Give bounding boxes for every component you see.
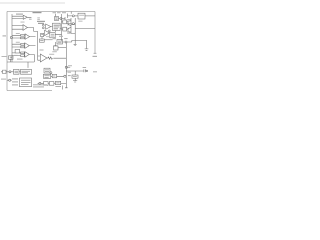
block bb2: [49, 82, 54, 86]
label modulator rows: [51, 34, 55, 36]
label vreg: [54, 44, 58, 47]
block mic mux: [15, 50, 20, 54]
op-amp A1: [23, 15, 27, 19]
label A4: [16, 41, 20, 44]
label list row1: [12, 78, 18, 79]
wire xtal2: [7, 79, 12, 81]
node C5 ring: [86, 70, 88, 72]
op-amp U4: [40, 54, 47, 62]
label under bb3: [55, 86, 61, 87]
label top pins: [53, 12, 57, 13]
label list row2: [12, 81, 18, 82]
label A5: [14, 55, 18, 56]
block bb1: [44, 82, 49, 86]
node pin above filter: [50, 72, 52, 74]
wire LDO to pin: [74, 15, 78, 17]
wire collect bus: [34, 31, 41, 60]
wire Q1: [62, 18, 72, 26]
wire sense: [72, 40, 87, 49]
node AGND pin: [64, 75, 66, 77]
resistor R3a: [21, 35, 25, 37]
block mux2: [39, 39, 44, 42]
capacitor micbias: [9, 56, 14, 60]
node pin XTAL2: [9, 79, 11, 81]
resistor R4b: [21, 46, 25, 48]
wire U4 out: [47, 57, 66, 59]
wire A5: [12, 53, 34, 62]
label filter B: [53, 75, 55, 77]
label list row3: [12, 84, 18, 85]
wire right rail: [94, 12, 96, 54]
wire bb chain: [48, 82, 66, 84]
block ILIM: [57, 40, 63, 45]
node pin IN circle: [10, 36, 12, 38]
label ILIM rows: [58, 41, 62, 43]
frame top: [7, 11, 95, 13]
label above zigzag line2: [49, 53, 54, 56]
wire switch node: [71, 18, 75, 44]
resistor R5b: [21, 55, 25, 57]
wire block down: [55, 31, 57, 33]
label above long wire: [17, 59, 23, 60]
block LDO: [78, 13, 85, 19]
label mux2: [40, 40, 43, 42]
wire long bottom: [7, 61, 34, 63]
wire filter out: [51, 75, 64, 77]
label LDO row: [79, 14, 84, 16]
block vreg: [54, 46, 59, 50]
wire right rail end: [94, 52, 97, 54]
label BOOT left line1: [67, 18, 70, 21]
label bb3: [56, 82, 59, 84]
wire main vertical: [65, 43, 68, 88]
label control logic line2: [38, 23, 44, 24]
wire vreg to vertical: [58, 47, 66, 49]
label BOOT right: [78, 20, 82, 23]
wire vreg: [55, 42, 57, 46]
label above U4: [40, 50, 44, 51]
label near y71 wire: [68, 71, 72, 74]
label A3: [16, 32, 20, 35]
label above zigzag line1: [52, 50, 57, 53]
label XTAL2 outside: [1, 79, 6, 80]
node BOOT pin: [72, 23, 74, 25]
node junction circle: [48, 30, 50, 32]
node pin left bb: [39, 82, 41, 84]
block filter B: [52, 74, 56, 78]
wire bias to mux2: [41, 37, 43, 39]
label pll rows: [22, 71, 31, 73]
wire right rail bottom: [66, 70, 84, 72]
label CS: [64, 38, 67, 39]
node LDO in pin: [72, 15, 74, 17]
wire top stub: [54, 14, 56, 17]
wire pin to filter: [50, 73, 52, 76]
resistor zigzag: [48, 57, 53, 59]
label OTP line1: [29, 16, 32, 19]
wire A4: [12, 44, 36, 47]
block bias small: [41, 33, 44, 36]
node CS pin: [65, 41, 67, 43]
wire boot rail: [75, 28, 95, 30]
crystal external: [1, 70, 9, 73]
op-amp A4: [25, 43, 30, 49]
label mid line2: [37, 18, 40, 21]
label top right corner: [93, 71, 97, 72]
wire pll clock up: [27, 62, 29, 68]
block dac: [44, 68, 50, 73]
wire VREF stub: [67, 66, 70, 68]
wire Q2: [62, 26, 72, 33]
wire tick bottom right: [62, 86, 64, 90]
capacitor C5: [84, 69, 86, 72]
label above A1: [16, 14, 23, 15]
label control logic line1: [37, 21, 45, 22]
label register rows: [21, 80, 31, 84]
frame bottom: [7, 90, 52, 92]
block modulator: [50, 33, 55, 38]
wire LDO in: [68, 12, 73, 19]
wire osc to pll: [19, 71, 21, 73]
resistor R5a: [21, 52, 25, 54]
block pll: [21, 69, 32, 74]
wire BOOT pin: [67, 23, 75, 25]
wire mux2 out: [44, 39, 52, 41]
op-amp U2: [46, 24, 51, 29]
ground under x75: [74, 44, 77, 45]
label above ILIM: [53, 38, 56, 39]
wire micbias: [10, 59, 12, 62]
label MICBIAS: [2, 55, 7, 58]
block snubber: [72, 75, 78, 78]
label under U3: [46, 35, 49, 38]
wire A3: [12, 35, 36, 38]
node circles U2: [42, 24, 44, 26]
label VCC: [59, 36, 63, 37]
block register map: [20, 78, 32, 87]
label PH line1: [67, 30, 70, 33]
block control logic: [53, 23, 61, 30]
block bb3: [55, 81, 60, 84]
label control block rows: [54, 25, 59, 29]
label gate mid: [59, 24, 62, 27]
wire gate bus: [61, 14, 63, 42]
label C5: [83, 67, 87, 68]
wire xtal1: [11, 71, 14, 73]
wire A1: [12, 16, 31, 18]
wire bb left: [38, 82, 44, 84]
op-amp A3: [25, 34, 30, 39]
wire input bus: [11, 14, 13, 62]
label snubber row: [73, 76, 77, 78]
wire LDO out: [85, 15, 95, 17]
label VREF: [68, 64, 72, 67]
page header rule: [0, 2, 65, 4]
resistor R3b: [21, 37, 25, 39]
label PGND right: [93, 56, 98, 57]
transistor Q1: [68, 20, 71, 26]
micbias plates: [10, 57, 11, 59]
label above A2: [21, 21, 25, 24]
frame left: [6, 12, 8, 91]
capacitor C4: [85, 49, 89, 50]
block osc: [14, 69, 20, 74]
label osc: [15, 71, 19, 73]
label mid line1: [37, 16, 40, 19]
op-amp A2: [23, 25, 27, 31]
block driver lo: [63, 27, 67, 31]
wire U2 to block: [51, 25, 62, 28]
label AGND: [68, 75, 71, 76]
resistor R4a: [21, 43, 25, 45]
op-amp U3: [45, 30, 50, 35]
wire mod: [49, 33, 61, 35]
label PH line2: [67, 32, 70, 35]
node VREF pin: [65, 66, 67, 68]
label dac rows: [45, 70, 49, 72]
label figure title: [33, 12, 42, 13]
label bottom note line1: [33, 84, 47, 85]
node ref out: [60, 18, 62, 20]
label bias small: [41, 34, 43, 36]
wire A2: [12, 25, 34, 31]
label OTP line2: [29, 18, 32, 21]
block filter A: [43, 74, 50, 78]
transistor Q2: [68, 27, 71, 33]
op-amp A5: [25, 52, 30, 58]
label bottom note line2: [33, 86, 44, 87]
block ref top: [55, 17, 59, 21]
node pin XTAL1: [9, 71, 11, 73]
label ref rows: [55, 18, 57, 19]
label IN outside: [3, 35, 7, 36]
wire snubber: [73, 71, 77, 82]
block driver hi: [63, 20, 67, 24]
label filter A: [44, 76, 49, 78]
wire CS: [63, 40, 72, 42]
label BOOT left line2: [67, 20, 70, 23]
wire ref: [59, 17, 66, 20]
